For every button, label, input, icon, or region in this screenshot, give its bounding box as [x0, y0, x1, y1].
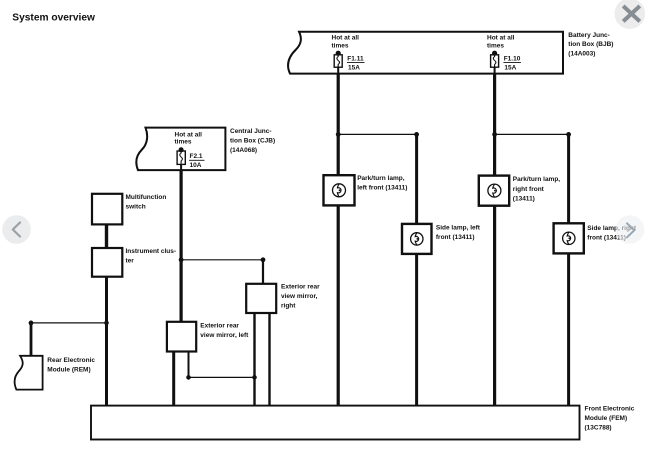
svg-text:(14A068): (14A068)	[230, 147, 257, 154]
svg-text:(13411): (13411)	[513, 195, 535, 202]
wire: instrument cluster to FEM	[105, 277, 108, 406]
wire: mirror left pin B	[188, 352, 190, 378]
svg-text:Park/turn lamp,: Park/turn lamp,	[513, 176, 561, 183]
svg-text:Rear Electronic: Rear Electronic	[47, 357, 95, 364]
fuse F1.11	[334, 51, 342, 68]
svg-text:System overview: System overview	[12, 12, 95, 23]
svg-text:right front: right front	[513, 186, 545, 193]
wire: mirror left pin A to FEM	[172, 352, 175, 406]
fuse F1.11 value divider	[347, 62, 365, 64]
svg-text:view mirror, left: view mirror, left	[200, 332, 249, 339]
svg-text:F2.1: F2.1	[190, 153, 203, 160]
svg-text:Side lamp, left: Side lamp, left	[436, 224, 481, 231]
svg-text:switch: switch	[126, 204, 146, 211]
wire: branch to REM	[31, 322, 107, 324]
svg-text:F1.10: F1.10	[504, 56, 521, 63]
side lamp left box	[402, 224, 432, 254]
svg-text:times: times	[332, 42, 349, 49]
nav left chevron	[2, 215, 31, 244]
exterior mirror left box	[167, 322, 196, 352]
svg-text:right: right	[281, 302, 296, 309]
wire: down into REM	[30, 323, 33, 356]
Rear Electronic Module (REM) outline (torn left edge)	[15, 356, 43, 390]
node: side lamp right feed	[566, 132, 571, 137]
node: mirror link junction	[252, 375, 257, 380]
svg-text:(14A003): (14A003)	[568, 51, 595, 58]
wire: F1.10 to BJB bottom	[494, 67, 496, 73]
Battery Junction Box (BJB) outline (torn left edge)	[288, 32, 563, 74]
fuse F1.10 value divider	[503, 62, 521, 64]
wire: down to side lamp left	[415, 134, 418, 224]
node: mirror left pin end	[186, 375, 191, 380]
svg-text:Front Electronic: Front Electronic	[585, 406, 635, 413]
nav right chevron (over side lamp right label)	[616, 215, 645, 244]
svg-text:Exterior rear: Exterior rear	[281, 283, 320, 290]
Front Electronic Module (FEM) box	[91, 406, 580, 440]
svg-text:tion Box (CJB): tion Box (CJB)	[230, 138, 275, 145]
wire: mirror link	[189, 376, 255, 378]
svg-text:view mirror,: view mirror,	[281, 293, 318, 300]
svg-text:Hot at all: Hot at all	[332, 35, 360, 42]
svg-text:times: times	[487, 42, 504, 49]
node: REM branch	[104, 321, 109, 326]
node: branch right park/turn	[492, 132, 497, 137]
wire: BJB to park/turn lamp left	[337, 74, 340, 176]
svg-text:Battery Junc-: Battery Junc-	[568, 32, 610, 39]
park/turn lamp left box	[324, 175, 355, 205]
exterior mirror right box	[246, 284, 276, 313]
wire: CJB down to mirror left	[180, 170, 183, 322]
wire: BJB to park/turn lamp right	[493, 74, 496, 176]
svg-text:Instrument clus-: Instrument clus-	[126, 248, 177, 255]
wire: mirror right pin B to FEM	[268, 313, 270, 406]
svg-text:ter: ter	[126, 257, 135, 264]
wire: down to side lamp right	[567, 134, 570, 223]
wire: branch to side lamp right	[495, 133, 569, 135]
wire: switch to instrument cluster	[105, 224, 108, 248]
side lamp right box	[554, 223, 584, 253]
close button	[615, 0, 646, 29]
wire: F2.1 to CJB bottom	[180, 164, 182, 170]
svg-text:(13C788): (13C788)	[585, 425, 612, 432]
wire: mirror right pin A to FEM	[253, 313, 255, 406]
lamp symbol park/turn left	[333, 184, 346, 197]
multifunction switch box	[92, 194, 122, 225]
fuse F2.1 value divider	[189, 159, 205, 161]
wire: F1.11 to BJB bottom	[337, 67, 339, 73]
lamp symbol side left	[411, 233, 423, 245]
fuse F2.1	[177, 147, 185, 164]
svg-text:Hot at all: Hot at all	[487, 35, 515, 42]
svg-text:Central Junc-: Central Junc-	[230, 128, 272, 135]
svg-text:Park/turn lamp,: Park/turn lamp,	[357, 175, 405, 182]
svg-text:front (13411): front (13411)	[436, 234, 475, 241]
park/turn lamp right box	[479, 176, 509, 206]
wire: branch to mirror right	[181, 259, 263, 261]
svg-text:left front (13411): left front (13411)	[357, 184, 407, 191]
wire: down into mirror right	[262, 260, 264, 284]
svg-text:F1.11: F1.11	[347, 56, 364, 63]
wire: side lamp right to FEM	[567, 253, 570, 405]
wire: branch to side lamp left	[338, 133, 416, 135]
svg-text:times: times	[175, 138, 192, 145]
node: branch left park/turn	[336, 132, 341, 137]
lamp symbol park/turn right	[488, 184, 501, 197]
svg-text:15A: 15A	[348, 64, 360, 71]
svg-text:10A: 10A	[190, 162, 202, 169]
Central Junction Box (CJB) outline (torn left edge)	[136, 128, 225, 171]
wire: park/turn right to FEM	[493, 206, 496, 406]
node: mirror branch on CJB wire	[179, 257, 184, 262]
node: REM feed	[29, 321, 34, 326]
svg-text:Exterior rear: Exterior rear	[200, 323, 239, 330]
node: mirror right feed	[261, 257, 266, 262]
svg-text:Module (REM): Module (REM)	[47, 366, 90, 373]
svg-text:tion Box (BJB): tion Box (BJB)	[568, 41, 613, 48]
svg-text:Module (FEM): Module (FEM)	[585, 415, 628, 422]
instrument cluster box	[92, 248, 122, 277]
fuse F1.10	[491, 51, 499, 68]
svg-text:15A: 15A	[504, 64, 516, 71]
svg-text:Multifunction: Multifunction	[126, 194, 167, 201]
wire: side lamp left to FEM	[415, 254, 418, 406]
node: side lamp left feed	[414, 132, 419, 137]
wire: park/turn left to FEM	[337, 205, 340, 405]
lamp symbol side right	[563, 232, 575, 244]
